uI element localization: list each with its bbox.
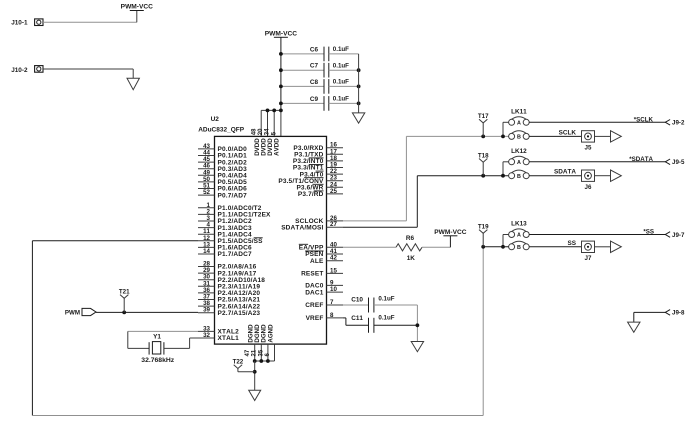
svg-text:0.1uF: 0.1uF (333, 96, 349, 103)
svg-text:A: A (517, 233, 521, 239)
svg-text:C8: C8 (310, 79, 319, 86)
svg-text:T22: T22 (233, 359, 244, 366)
svg-text:DAC1: DAC1 (305, 289, 324, 296)
svg-text:27: 27 (330, 221, 337, 228)
svg-text:SDATA: SDATA (554, 169, 576, 176)
svg-text:PWM-VCC: PWM-VCC (265, 31, 297, 38)
svg-text:C6: C6 (310, 46, 319, 53)
svg-text:ALE: ALE (310, 258, 324, 265)
svg-text:*SS: *SS (643, 229, 654, 236)
svg-text:P1.7/ADC7: P1.7/ADC7 (218, 251, 252, 258)
svg-text:R6: R6 (406, 235, 415, 242)
svg-text:AVDD: AVDD (274, 138, 281, 156)
svg-text:A: A (517, 121, 521, 127)
svg-text:35: 35 (258, 349, 264, 356)
svg-text:J9-5: J9-5 (672, 159, 685, 166)
svg-text:SCLK: SCLK (559, 129, 577, 136)
svg-text:32.768kHz: 32.768kHz (141, 357, 174, 364)
svg-text:C7: C7 (310, 63, 319, 70)
svg-text:SDATA/MOSI: SDATA/MOSI (281, 224, 323, 231)
svg-text:T18: T18 (478, 152, 489, 159)
svg-text:39: 39 (203, 307, 210, 314)
svg-text:*SCLK: *SCLK (634, 116, 654, 123)
svg-text:J6: J6 (585, 184, 592, 191)
svg-text:AGND: AGND (267, 324, 274, 343)
svg-text:CREF: CREF (305, 302, 323, 309)
svg-text:LK12: LK12 (511, 148, 527, 155)
svg-text:20: 20 (258, 128, 264, 135)
svg-text:PWM: PWM (65, 309, 80, 316)
svg-text:A: A (517, 160, 521, 166)
svg-text:0.1uF: 0.1uF (378, 314, 394, 321)
svg-text:T21: T21 (119, 288, 130, 295)
svg-text:7: 7 (330, 299, 334, 306)
svg-text:10: 10 (330, 286, 337, 293)
svg-text:J9-8: J9-8 (672, 310, 685, 317)
svg-text:0.1uF: 0.1uF (333, 79, 349, 86)
svg-text:15: 15 (330, 267, 337, 274)
svg-text:P0.7/AD7: P0.7/AD7 (218, 192, 248, 199)
svg-text:ADuC832_QFP: ADuC832_QFP (198, 127, 245, 134)
svg-text:J10-2: J10-2 (11, 67, 28, 74)
svg-text:J9-7: J9-7 (672, 232, 685, 239)
svg-text:0.1uF: 0.1uF (333, 46, 349, 53)
svg-text:42: 42 (330, 255, 337, 262)
svg-text:0.1uF: 0.1uF (333, 62, 349, 69)
svg-text:J7: J7 (585, 255, 592, 262)
svg-text:48: 48 (252, 128, 258, 135)
svg-text:XTAL1: XTAL1 (218, 335, 240, 342)
svg-text:LK13: LK13 (511, 221, 527, 228)
svg-text:C10: C10 (351, 297, 363, 304)
svg-text:LK11: LK11 (511, 108, 527, 115)
svg-text:J9-2: J9-2 (672, 120, 685, 127)
svg-text:PWM-VCC: PWM-VCC (121, 4, 153, 11)
svg-text:0.1uF: 0.1uF (378, 295, 394, 302)
svg-text:34: 34 (265, 128, 271, 135)
svg-text:14: 14 (203, 248, 210, 255)
svg-text:32: 32 (203, 332, 210, 339)
svg-text:PWM-VCC: PWM-VCC (434, 229, 466, 236)
svg-text:VREF: VREF (306, 315, 324, 322)
svg-text:47: 47 (245, 349, 251, 356)
svg-text:T17: T17 (478, 113, 489, 120)
svg-text:C9: C9 (310, 96, 319, 103)
svg-text:T19: T19 (478, 223, 489, 230)
svg-text:J10-1: J10-1 (11, 20, 28, 27)
svg-text:P3.7/RD: P3.7/RD (298, 191, 324, 198)
svg-text:SS: SS (567, 240, 576, 247)
svg-text:Y1: Y1 (153, 334, 161, 341)
svg-text:52: 52 (203, 189, 210, 196)
svg-text:U2: U2 (211, 116, 220, 123)
svg-text:25: 25 (330, 188, 337, 195)
svg-text:P2.7/A15/A23: P2.7/A15/A23 (218, 310, 261, 317)
svg-text:21: 21 (252, 349, 258, 356)
svg-text:B: B (517, 245, 521, 251)
svg-text:B: B (517, 174, 521, 180)
svg-text:C11: C11 (351, 315, 363, 322)
svg-text:1K: 1K (407, 255, 416, 262)
svg-text:B: B (517, 135, 521, 141)
svg-text:J5: J5 (585, 145, 592, 152)
svg-text:8: 8 (330, 312, 334, 319)
svg-text:*SDATA: *SDATA (629, 156, 653, 163)
svg-text:RESET: RESET (301, 271, 323, 278)
